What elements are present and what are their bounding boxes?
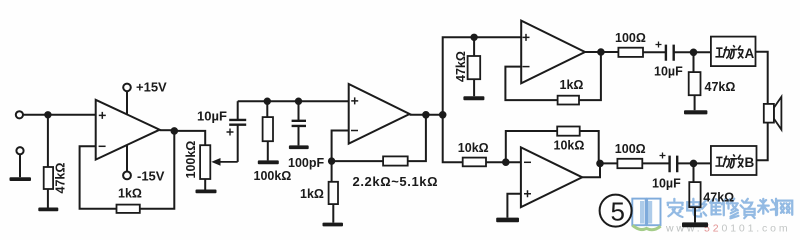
wire U2 out (410, 114, 443, 116)
wire speaker to amp B (756, 123, 767, 161)
capacitor C2 100pF (292, 121, 306, 126)
wire node D to C2 (298, 101, 300, 120)
resistor R7 1kΩ (558, 96, 579, 105)
op-amp U4 (521, 147, 582, 207)
U3 - symbol (523, 66, 530, 68)
wire U3 out (585, 51, 618, 53)
potentiometer RP1 100kΩ (200, 145, 210, 179)
U3 + symbol (523, 34, 530, 41)
resistor R5 1kΩ (331, 161, 333, 182)
wire R8 to C3 (643, 51, 666, 53)
wire RP1 to ground (204, 179, 206, 190)
wire node B to potentiometer RP1 (174, 131, 205, 145)
svg-text:2.2kΩ~5.1kΩ: 2.2kΩ~5.1kΩ (353, 174, 439, 189)
svg-text:47kΩ: 47kΩ (705, 80, 736, 94)
wire R12 to U4 out (580, 131, 599, 161)
ground R5 (323, 223, 344, 227)
node G (440, 112, 446, 118)
wire node E to R4 (332, 160, 384, 162)
node B output of U1 (172, 128, 178, 134)
U1 + symbol (99, 112, 106, 119)
svg-text:47kΩ: 47kΩ (703, 191, 734, 205)
resistor R13 100Ω (617, 159, 642, 168)
svg-text:B: B (745, 155, 755, 170)
ground R10 (682, 222, 708, 227)
wire node A to R1 (47, 115, 49, 167)
node C (265, 99, 270, 104)
svg-text:100Ω: 100Ω (615, 31, 646, 45)
C3 + symbol (656, 42, 662, 48)
RP1 wiper arrow (220, 161, 238, 163)
wire wiper to C1 (237, 125, 239, 162)
wire C4 to amp B (677, 162, 711, 164)
resistor R1 47kΩ (44, 167, 53, 189)
svg-text:47kΩ: 47kΩ (54, 163, 68, 194)
ground R9 (684, 110, 707, 114)
node H (471, 35, 476, 40)
svg-text:+15V: +15V (136, 80, 167, 95)
resistor R11 10kΩ (463, 158, 486, 167)
svg-text:100kΩ: 100kΩ (254, 169, 292, 183)
svg-text:1kΩ: 1kΩ (118, 187, 142, 201)
resistor R12 10kΩ (557, 127, 580, 136)
ground U4 (496, 218, 519, 223)
wire node G up to U3 +in (443, 37, 522, 115)
node L (597, 161, 603, 167)
wire J1 to op-amp U1 +in (23, 114, 96, 116)
svg-text:-15V: -15V (137, 169, 165, 184)
wire C3 to amp A (674, 51, 711, 53)
wire U1 feedback from -in (80, 146, 117, 209)
ground R3 (258, 160, 279, 164)
resistor R8 100Ω (618, 48, 643, 57)
op-amp U1 (96, 100, 160, 160)
svg-text:10µF: 10µF (197, 109, 227, 124)
wire R10 to ground (694, 207, 696, 222)
ground C2 (289, 145, 309, 149)
node D (296, 99, 301, 104)
input terminal J1 (16, 111, 23, 118)
功放B text (drawn strokes) (715, 154, 754, 170)
wire R3 to ground (267, 141, 269, 160)
power amp A block 功放A (711, 37, 756, 67)
wire U3 feedback (505, 67, 557, 101)
speaker SP (764, 104, 774, 123)
resistor R6 47kΩ (473, 37, 475, 56)
U2 + symbol (351, 97, 358, 104)
wire node L to R13 (600, 162, 617, 164)
wire C2 to ground (298, 126, 300, 145)
power amp B block 功放B (711, 146, 757, 175)
svg-text:100pF: 100pF (288, 156, 324, 170)
U4 + symbol (524, 190, 531, 197)
svg-text:100kΩ: 100kΩ (184, 141, 198, 179)
wire R4 to U2 output (408, 115, 426, 161)
svg-text:47kΩ: 47kΩ (454, 51, 468, 82)
node I (598, 49, 604, 55)
svg-text:A: A (745, 46, 755, 61)
resistor R3 100kΩ (263, 117, 273, 141)
svg-text:10kΩ: 10kΩ (458, 141, 489, 155)
power terminal -15V (126, 145, 128, 171)
svg-text:1kΩ: 1kΩ (300, 187, 324, 201)
C4 + symbol (660, 153, 666, 159)
wire R11 to U4 -in (486, 161, 521, 163)
svg-text:1kΩ: 1kΩ (560, 78, 584, 92)
wire R6 to ground (473, 79, 475, 96)
wire R5 to ground (332, 204, 334, 223)
svg-text:0101.com: 0101.com (722, 223, 791, 235)
wire U4 feedback (506, 131, 557, 162)
wire R9 to ground (694, 95, 696, 110)
circled figure number 5 (600, 195, 632, 227)
node F (423, 112, 429, 118)
op-amp U2 (349, 84, 410, 144)
watermark text 家电维修资料网 (668, 199, 793, 219)
wire R2 to output node (140, 131, 175, 209)
power terminal +15V (126, 91, 128, 114)
node M (691, 161, 697, 167)
U2 - symbol (351, 130, 358, 132)
wire R7 to U3 out (579, 52, 601, 100)
wire C1 to rail (237, 101, 239, 120)
wire rail to U2 +in (238, 100, 349, 102)
wire U1 out to node B (160, 129, 175, 131)
wire U4 +in to ground (507, 194, 521, 218)
node A junction dot (45, 112, 50, 117)
watermark book logo (632, 199, 660, 230)
watermark url www.520101.com (665, 223, 790, 235)
C1 + symbol (227, 129, 234, 136)
ground RP1 (196, 190, 217, 194)
wire U4 out (582, 163, 600, 177)
capacitor C1 10µF (229, 120, 246, 125)
wire U2 -in to node E (332, 131, 349, 162)
node J (691, 50, 697, 56)
svg-text:10µF: 10µF (654, 65, 683, 79)
resistor R9 47kΩ (693, 52, 695, 72)
node K (503, 159, 509, 165)
svg-text:5: 5 (611, 197, 625, 227)
wire R1 to ground (47, 189, 49, 208)
ground J2 (10, 177, 32, 181)
功放A text (drawn strokes) (715, 45, 754, 61)
ground R1 (38, 208, 58, 212)
resistor R2 1kΩ (117, 205, 140, 213)
op-amp U3 (521, 21, 585, 84)
wire amp A to speaker (756, 52, 768, 104)
node E (329, 158, 334, 163)
svg-text:10µF: 10µF (652, 177, 681, 191)
wire node C to R3 (266, 101, 268, 117)
capacitor C3 10µF (666, 45, 674, 61)
wire node G down to R11 (443, 115, 463, 162)
resistor R4 2.2kΩ~5.1kΩ (383, 156, 408, 165)
svg-text:10kΩ: 10kΩ (554, 138, 585, 152)
svg-text:100Ω: 100Ω (615, 142, 646, 156)
U1 - symbol (99, 145, 106, 147)
U4 - symbol (524, 161, 531, 163)
capacitor C4 10µF (670, 156, 678, 173)
ground R6 (463, 96, 484, 100)
wire J2 to ground (19, 154, 21, 177)
resistor R10 47kΩ (693, 163, 695, 182)
wire R13 to C4 (642, 162, 669, 164)
input terminal J2 (16, 147, 23, 154)
